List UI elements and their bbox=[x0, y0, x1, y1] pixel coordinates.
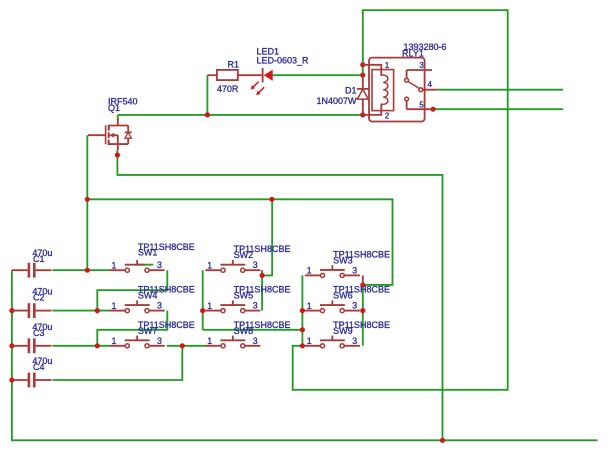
svg-text:1: 1 bbox=[207, 261, 212, 271]
wire R1 left vertical bbox=[206, 75, 208, 115]
wire supply column middle switch block bbox=[202, 270, 204, 330]
svg-text:3: 3 bbox=[253, 336, 258, 346]
wire supply net top loop bbox=[293, 10, 508, 390]
svg-text:3: 3 bbox=[419, 61, 423, 70]
svg-text:3: 3 bbox=[253, 260, 258, 270]
svg-text:1: 1 bbox=[207, 301, 212, 311]
LED LED1 bbox=[251, 46, 309, 95]
switch SW1 TP11SH8CBE bbox=[110, 242, 195, 272]
switch SW5 TP11SH8CBE bbox=[205, 285, 290, 313]
wire SW2 pin3 drop red bbox=[261, 270, 263, 275]
diode D1 1N4007W bbox=[316, 75, 368, 115]
wire relay pin4 net bbox=[437, 89, 563, 91]
svg-text:Q1: Q1 bbox=[108, 103, 120, 113]
wire ground rail left and bottom bbox=[12, 270, 598, 440]
svg-text:1: 1 bbox=[307, 266, 312, 276]
capacitor C1 470u bbox=[12, 248, 53, 278]
svg-text:4: 4 bbox=[428, 80, 433, 89]
switch SW8 TP11SH8CBE bbox=[205, 320, 290, 348]
svg-text:R1: R1 bbox=[228, 60, 240, 70]
svg-text:1: 1 bbox=[207, 336, 212, 346]
switch SW2 TP11SH8CBE bbox=[205, 244, 290, 272]
capacitor C2 470u bbox=[12, 287, 53, 318]
mosfet Q1 IRF540 bbox=[88, 97, 138, 151]
wire SW7 to SW8 row segment bbox=[167, 345, 206, 347]
switch SW9 TP11SH8CBE bbox=[305, 320, 390, 348]
svg-text:SW4: SW4 bbox=[138, 291, 158, 301]
wire SW1 to SW4 elbow bbox=[97, 270, 167, 310]
wire C3 row to SW7 bbox=[52, 345, 109, 347]
svg-text:3: 3 bbox=[352, 301, 357, 311]
wire gate net vertical from mosfet bbox=[86, 135, 88, 270]
svg-text:C2: C2 bbox=[33, 293, 45, 303]
svg-text:1: 1 bbox=[112, 336, 117, 346]
svg-text:470R: 470R bbox=[217, 84, 239, 94]
svg-text:2: 2 bbox=[385, 111, 389, 120]
svg-text:3: 3 bbox=[157, 260, 162, 270]
svg-text:3: 3 bbox=[157, 336, 162, 346]
svg-text:SW6: SW6 bbox=[333, 291, 353, 301]
svg-text:5: 5 bbox=[419, 101, 424, 110]
wire gate net drop to SW2 SW5 bbox=[262, 199, 272, 310]
svg-text:SW5: SW5 bbox=[234, 291, 254, 301]
svg-text:1: 1 bbox=[307, 336, 312, 346]
wire drain net y115 bbox=[118, 114, 363, 116]
svg-text:3: 3 bbox=[352, 336, 357, 346]
svg-text:D1: D1 bbox=[345, 86, 357, 96]
svg-text:RLY1: RLY1 bbox=[402, 48, 424, 58]
wire LED to relay bbox=[273, 74, 363, 76]
wire gate net drop to SW6 SW9 bbox=[362, 285, 364, 346]
relay RLY1 1393280-6 bbox=[363, 42, 447, 121]
wire row1 C1 to SW1 bbox=[52, 269, 109, 271]
capacitor C3 470u bbox=[12, 322, 53, 353]
svg-text:1N4007W: 1N4007W bbox=[316, 96, 357, 106]
svg-text:C1: C1 bbox=[33, 254, 45, 264]
svg-text:3: 3 bbox=[253, 301, 258, 311]
resistor R1 bbox=[207, 60, 261, 95]
capacitor C4 470u bbox=[12, 356, 53, 387]
svg-text:SW9: SW9 bbox=[333, 326, 353, 336]
wire gate net horizontal y199 bbox=[87, 199, 392, 285]
svg-text:SW3: SW3 bbox=[333, 255, 353, 265]
svg-text:C4: C4 bbox=[33, 362, 45, 372]
svg-text:1: 1 bbox=[385, 61, 389, 70]
switch SW7 TP11SH8CBE bbox=[110, 320, 195, 348]
svg-text:SW8: SW8 bbox=[234, 326, 254, 336]
svg-text:1: 1 bbox=[112, 261, 117, 271]
wire supply column right switch block bbox=[301, 275, 303, 345]
switch SW3 TP11SH8CBE bbox=[305, 249, 390, 277]
wire supply cross link y330 bbox=[203, 329, 303, 331]
svg-text:SW7: SW7 bbox=[138, 326, 158, 336]
wire source net to bottom bbox=[117, 150, 442, 441]
svg-text:SW2: SW2 bbox=[234, 250, 254, 260]
wire C2 row to SW4 bbox=[52, 310, 109, 312]
svg-text:SW1: SW1 bbox=[138, 248, 158, 258]
svg-text:1: 1 bbox=[112, 301, 117, 311]
svg-text:C3: C3 bbox=[33, 328, 45, 338]
wire drain stub corner bbox=[117, 115, 119, 120]
wire stray segment above SW1 bbox=[137, 264, 153, 266]
svg-text:3: 3 bbox=[157, 301, 162, 311]
switch SW6 TP11SH8CBE bbox=[305, 285, 390, 313]
svg-text:LED-0603_R: LED-0603_R bbox=[257, 55, 310, 65]
svg-text:3: 3 bbox=[352, 265, 357, 275]
wire relay pin5 net bbox=[433, 108, 563, 110]
switch SW4 TP11SH8CBE bbox=[110, 285, 195, 313]
wire SW4 to SW7 elbow bbox=[97, 311, 167, 346]
svg-text:1: 1 bbox=[307, 301, 312, 311]
wire SW3 pin3 drop red bbox=[362, 275, 364, 285]
wire C4 row elbow to SW7 SW8 junction bbox=[52, 346, 182, 380]
